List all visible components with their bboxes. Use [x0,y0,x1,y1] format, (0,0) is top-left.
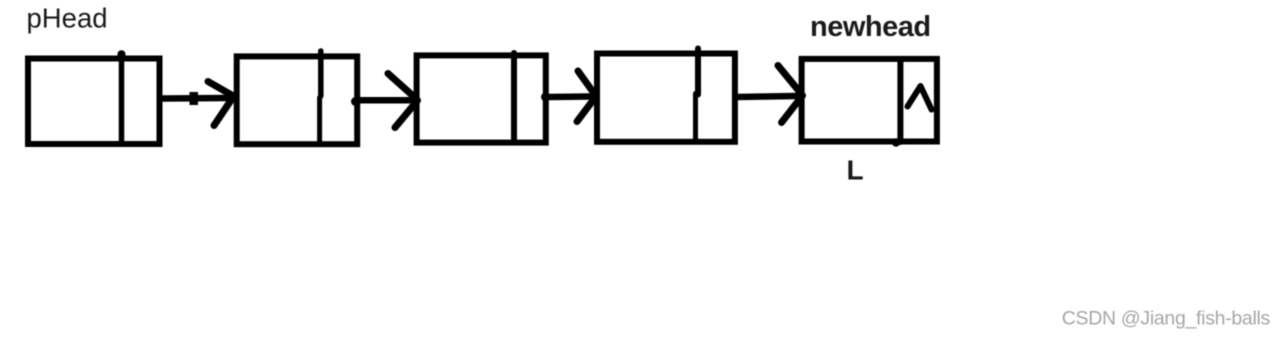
svg-text:L: L [847,155,864,186]
arrowhead 1 [208,82,235,126]
node 5 box [802,59,937,142]
node 3 box [417,55,546,142]
node 2 divider lower [317,98,322,142]
node 2 divider upper [318,51,324,96]
node 2 box [237,56,358,144]
node 4 box [597,54,735,142]
node 3 divider [511,53,517,142]
arrowhead 3 [577,71,598,122]
node 1 box [28,59,160,145]
null caret in node 5 pointer cell [908,86,932,110]
wire node3 to node4 [549,93,589,100]
wire start dot [351,97,360,106]
node 4 divider lower [693,94,698,140]
svg-text:newhead: newhead [810,11,931,43]
wire node2 to node3 [357,97,410,104]
node 1 divider dot [117,50,125,58]
wire junction square [190,92,199,105]
svg-text:pHead: pHead [27,3,108,34]
node 5 divider bottom dot [892,138,900,146]
arrowhead 4 [778,66,805,123]
wire node4 to node5 [737,96,796,97]
wire node1 to node2 [161,95,228,102]
arrowhead 2 [388,74,420,128]
svg-text:CSDN @Jiang_fish-balls: CSDN @Jiang_fish-balls [1062,308,1271,330]
node 1 divider [119,56,125,145]
node 4 divider upper [695,49,701,95]
wire start dot [541,93,550,102]
node 5 divider [897,60,903,143]
